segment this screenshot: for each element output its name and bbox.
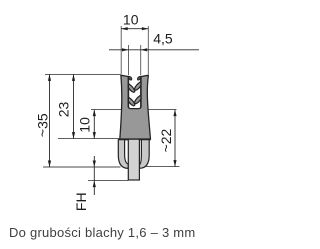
svg-text:FH: FH [73, 192, 89, 211]
svg-text:10: 10 [123, 12, 139, 28]
svg-text:~22: ~22 [158, 128, 174, 152]
svg-text:Do grubości blachy 1,6 – 3 mm: Do grubości blachy 1,6 – 3 mm [9, 225, 195, 240]
svg-text:10: 10 [77, 117, 93, 133]
svg-text:23: 23 [55, 102, 71, 118]
svg-text:~35: ~35 [35, 113, 51, 137]
svg-text:4,5: 4,5 [153, 30, 173, 46]
